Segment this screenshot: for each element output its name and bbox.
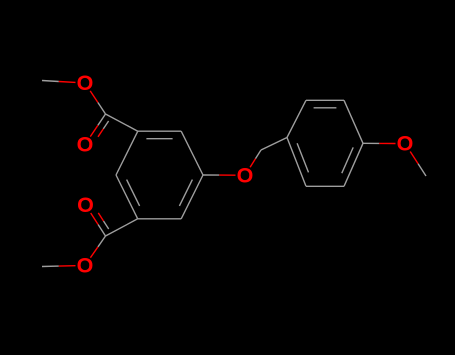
svg-text:O: O (77, 71, 94, 95)
svg-text:O: O (397, 132, 414, 156)
svg-text:O: O (237, 163, 254, 187)
svg-text:O: O (77, 193, 94, 217)
svg-text:O: O (77, 254, 94, 278)
svg-text:O: O (77, 133, 94, 157)
